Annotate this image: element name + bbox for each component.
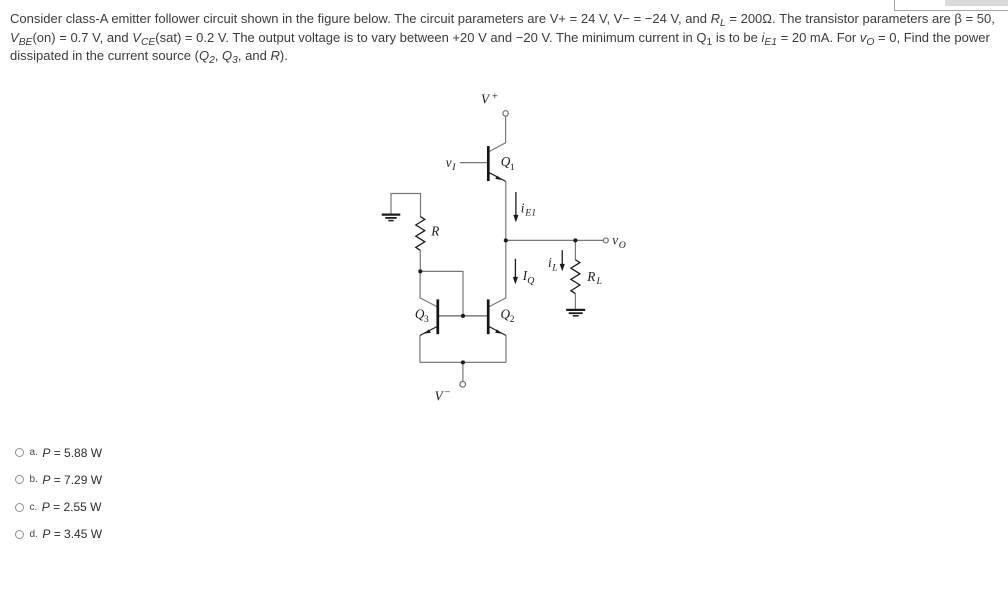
svg-text:R: R <box>586 269 595 284</box>
svg-text:Q: Q <box>527 276 534 287</box>
svg-text:3: 3 <box>424 314 429 325</box>
svg-text:2: 2 <box>510 314 515 325</box>
svg-text:L: L <box>596 276 602 287</box>
svg-text:O: O <box>619 240 626 251</box>
svg-text:1: 1 <box>510 162 515 173</box>
svg-text:L: L <box>551 262 557 273</box>
svg-text:i: i <box>521 200 525 215</box>
svg-text:v: v <box>446 155 452 170</box>
svg-text:−: − <box>444 386 450 398</box>
svg-text:V: V <box>481 92 491 107</box>
svg-text:I: I <box>451 162 456 173</box>
svg-text:R: R <box>430 223 439 238</box>
svg-text:v: v <box>612 233 618 248</box>
svg-text:E1: E1 <box>524 208 536 219</box>
svg-text:+: + <box>492 90 498 102</box>
svg-text:V: V <box>435 388 445 403</box>
